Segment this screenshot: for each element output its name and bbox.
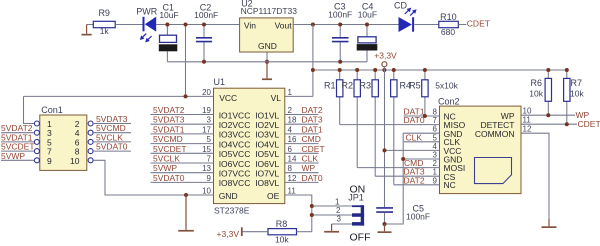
svg-text:10: 10: [523, 107, 532, 116]
terminal +3,3V bottom: [217, 227, 243, 239]
svg-text:IO4VL: IO4VL: [255, 139, 279, 149]
wire CD LED to R10: [414, 24, 438, 26]
wire U1 left stub pin17 5VDAT1: [151, 124, 214, 134]
resistor R1: [324, 70, 343, 125]
resistor R7: [564, 70, 585, 124]
svg-text:13: 13: [202, 164, 211, 173]
svg-text:3: 3: [337, 215, 342, 224]
resistor R10: [439, 21, 459, 27]
svg-text:R5: R5: [409, 81, 421, 91]
node: junction R3 rail: [373, 68, 377, 72]
wire U1 left stub pin3 5VDAT3: [151, 115, 214, 125]
wire U1 pin1 VL: [285, 95, 313, 97]
wire JP1 pin3: [332, 223, 352, 225]
wire Con1 pin7 5VCDET: [1, 142, 35, 152]
svg-text:18: 18: [288, 116, 297, 125]
wire Con1 pin1 riser: [24, 96, 35, 123]
Con1 pin circles right: [88, 121, 93, 163]
wire Con1 pin3 5VDAT2: [1, 123, 34, 133]
svg-text:8: 8: [288, 164, 293, 173]
svg-text:11: 11: [288, 187, 297, 196]
svg-text:CMD: CMD: [302, 134, 321, 144]
jumper JP1: [352, 205, 364, 225]
node: junction C1 on 5V line: [165, 23, 169, 27]
svg-text:19: 19: [202, 106, 211, 115]
resistor R3: [359, 70, 378, 176]
svg-text:9: 9: [207, 174, 212, 183]
svg-text:DAT0: DAT0: [302, 173, 323, 183]
svg-text:CDET: CDET: [578, 119, 600, 129]
svg-text:5VDAT2: 5VDAT2: [153, 105, 185, 115]
wire +3.3V riser from Vout line to U1 VL: [312, 25, 314, 97]
wire U1 right stub pin8 WP: [285, 163, 319, 173]
svg-text:Vin: Vin: [244, 20, 256, 30]
svg-text:4: 4: [288, 125, 293, 134]
svg-text:R8: R8: [276, 219, 288, 229]
node: junction R4 rail: [392, 68, 396, 72]
svg-text:IO5VL: IO5VL: [255, 149, 279, 159]
wire U1 left stub pin13 5VWP: [151, 163, 214, 173]
node: junction R7 on CDET: [565, 122, 569, 126]
wire gnd rail: [167, 61, 367, 63]
svg-text:DAT0: DAT0: [404, 115, 425, 125]
svg-text:5VWP: 5VWP: [153, 163, 177, 173]
svg-text:IO1VL: IO1VL: [255, 110, 279, 120]
svg-text:DAT2: DAT2: [404, 175, 425, 185]
IC U1 ST2378E: [214, 88, 285, 203]
svg-text:7: 7: [207, 155, 212, 164]
svg-text:CLK: CLK: [302, 154, 319, 164]
wire Con1 pin8 5VDAT0: [93, 142, 131, 152]
wire 5V line to U1 VCC pin20: [24, 95, 214, 97]
svg-text:5VCMD: 5VCMD: [153, 134, 183, 144]
node: junction JP1 pin1: [310, 204, 314, 208]
wire Con2 pin12 to ground: [521, 125, 549, 220]
wire R9 to LED PWR: [115, 24, 142, 26]
svg-text:10: 10: [70, 156, 80, 166]
ground symbol JP1: [324, 224, 339, 233]
resistor R4: [391, 70, 411, 185]
wire R10 to CDET label: [458, 24, 466, 26]
wire JP1 pin1: [312, 205, 352, 207]
svg-text:3: 3: [47, 128, 52, 138]
svg-text:R6: R6: [530, 78, 542, 88]
svg-text:5VWP: 5VWP: [1, 151, 25, 161]
svg-text:10k: 10k: [570, 89, 584, 99]
ground symbol U2: [262, 62, 272, 80]
node: junction R1 rail: [338, 68, 342, 72]
svg-text:11: 11: [523, 116, 532, 125]
node: junction R5 rail: [423, 68, 427, 72]
svg-text:16: 16: [288, 135, 297, 144]
svg-text:15: 15: [202, 145, 211, 154]
svg-text:IO7VL: IO7VL: [255, 169, 279, 179]
SD card icon inside Con2: [475, 158, 512, 184]
capacitor C3: [332, 25, 349, 62]
node: junction JP1 pin2: [310, 213, 314, 217]
wire JP1 pin2: [312, 214, 352, 216]
svg-text:R2: R2: [341, 81, 353, 91]
capacitor C2: [196, 25, 212, 62]
resistor R6: [529, 70, 551, 115]
node: junction C4 top: [365, 23, 369, 27]
svg-text:3: 3: [207, 116, 212, 125]
wire Con1 pin10 to U1 GND: [93, 160, 213, 195]
svg-text:IO3VL: IO3VL: [255, 130, 279, 140]
svg-text:1k: 1k: [100, 26, 110, 36]
svg-text:2: 2: [288, 106, 293, 115]
svg-text:5x10k: 5x10k: [435, 81, 458, 91]
wire Con2 pin6 GND: [403, 125, 439, 134]
node: junction 3.3V riser on Vout line: [311, 23, 315, 27]
svg-text:9: 9: [433, 176, 438, 185]
wire U1 pin11 OE: [285, 195, 312, 232]
svg-text:IO5VCC: IO5VCC: [219, 149, 251, 159]
wire Con2 pin3 GND: [403, 151, 439, 160]
svg-text:GND: GND: [219, 191, 238, 201]
ground symbol C5: [378, 224, 392, 233]
resistor R9: [93, 21, 115, 27]
svg-text:ST2378E: ST2378E: [214, 206, 250, 216]
LED PWR: [140, 17, 156, 43]
wire U1 left stub pin15 5VCDET: [151, 144, 214, 154]
node: junction R7 rail: [565, 68, 569, 72]
svg-text:10: 10: [202, 187, 211, 196]
svg-text:5VDAT0: 5VDAT0: [96, 142, 128, 152]
svg-text:DAT3: DAT3: [302, 115, 323, 125]
wire U1 left stub pin5 5VCMD: [151, 134, 214, 144]
node: junction R5 on DAT1: [423, 114, 427, 118]
node: junction C3 top: [338, 23, 342, 27]
svg-text:IO8VCC: IO8VCC: [219, 178, 251, 188]
node: junction +3,3V feed on rail: [382, 68, 386, 72]
svg-text:R3: R3: [359, 81, 371, 91]
wire U2 GND stem: [266, 52, 268, 62]
wire R8 right to OE vertical: [297, 231, 312, 233]
Con1 pin circles left: [34, 121, 39, 163]
svg-text:4: 4: [75, 128, 80, 138]
svg-text:CLK: CLK: [406, 132, 423, 142]
wire Con1 pin4 5VCMD: [93, 123, 131, 133]
wire R8 left to +3,3V terminal: [242, 231, 268, 233]
svg-text:DAT1: DAT1: [302, 124, 323, 134]
ground terminal left of R9: [82, 25, 92, 36]
svg-text:10uF: 10uF: [159, 10, 178, 20]
svg-text:Vout: Vout: [275, 20, 293, 30]
resistor R2: [341, 70, 360, 168]
svg-text:Con1: Con1: [41, 105, 63, 115]
svg-text:100nF: 100nF: [194, 10, 218, 20]
wire U1 right stub pin14 CLK: [285, 154, 319, 164]
svg-text:100nF: 100nF: [328, 10, 352, 20]
svg-text:COMMON: COMMON: [475, 129, 515, 139]
regulator U2: [240, 18, 294, 52]
node: junction GND vertical pin3: [401, 157, 405, 161]
svg-text:100nF: 100nF: [406, 212, 430, 222]
wire Con1 pin5 5VDAT1: [1, 132, 34, 142]
wire Con2 pin1 CS from R3: [375, 167, 439, 177]
capacitor C4: [357, 25, 378, 62]
svg-text:PWR: PWR: [136, 7, 157, 17]
wire Con2 pin8 DAT1: [404, 107, 440, 117]
ground symbol Con2 pin12: [542, 219, 557, 228]
svg-text:WP: WP: [302, 163, 316, 173]
svg-text:17: 17: [202, 125, 211, 134]
svg-text:12: 12: [288, 174, 297, 183]
svg-text:IO3VCC: IO3VCC: [219, 130, 251, 140]
svg-text:U1: U1: [214, 77, 226, 87]
node: junction rail left end: [311, 68, 315, 72]
svg-text:NCP1117DT33: NCP1117DT33: [241, 6, 298, 16]
node: junction riser on pin20 line: [184, 94, 188, 98]
wire U1 right stub pin2 DAT2: [285, 105, 323, 115]
resistor R8: [268, 219, 297, 245]
wire +3,3V feed down to VCC and C5: [383, 67, 385, 208]
wire Con2 pin7 DAT0 from R1: [340, 115, 440, 125]
wire Con1 pin6 5VCLK: [93, 132, 131, 142]
wire Con1 pin9 5VWP: [1, 151, 34, 161]
svg-text:IO8VL: IO8VL: [255, 178, 279, 188]
wire U1 left stub pin9 5VDAT0: [151, 173, 214, 183]
svg-text:Con2: Con2: [438, 97, 460, 107]
svg-text:14: 14: [288, 155, 297, 164]
svg-text:IO2VL: IO2VL: [255, 120, 279, 130]
svg-text:5VCLK: 5VCLK: [153, 154, 180, 164]
svg-text:IO4VCC: IO4VCC: [219, 139, 251, 149]
svg-text:R9: R9: [98, 8, 110, 18]
wire U1 right stub pin16 CMD: [285, 134, 321, 144]
svg-text:12: 12: [523, 125, 532, 134]
svg-text:ON: ON: [350, 183, 366, 195]
node: junction C2 on 5V line: [202, 23, 206, 27]
svg-text:IO6VCC: IO6VCC: [219, 159, 251, 169]
wire Con2 pin5 CLK: [404, 132, 440, 142]
svg-text:5VDAT0: 5VDAT0: [153, 173, 185, 183]
wire U1 right stub pin12 DAT0: [285, 173, 323, 183]
svg-text:IO6VL: IO6VL: [255, 159, 279, 169]
node: junction C2 bottom on gnd rail: [202, 60, 206, 64]
wire U1 right stub pin4 DAT1: [285, 124, 323, 134]
svg-text:VL: VL: [271, 93, 282, 103]
svg-text:R7: R7: [571, 78, 583, 88]
svg-text:680: 680: [441, 27, 455, 37]
node: junction C3 bottom: [338, 60, 342, 64]
LED CD: [399, 8, 417, 32]
capacitor C1: [159, 25, 178, 62]
ground symbol U1: [178, 195, 194, 232]
wire U1 right stub pin6 CDET: [285, 144, 325, 154]
svg-text:IO7VCC: IO7VCC: [219, 169, 251, 179]
wire U1 left stub pin7 5VCLK: [151, 154, 214, 164]
capacitor C5: [376, 204, 430, 225]
wire Con2 pin11 CDET: [521, 116, 600, 129]
svg-text:IO1VCC: IO1VCC: [219, 110, 251, 120]
node: junction riser on 5V line: [184, 23, 188, 27]
svg-text:10uF: 10uF: [358, 10, 377, 20]
wire U1 left stub pin19 5VDAT2: [151, 105, 214, 115]
svg-text:5: 5: [207, 135, 212, 144]
connector Con1: [40, 115, 87, 170]
wire Con2 pin10 WP: [521, 107, 590, 120]
wire Con2 pin2 MOSI from R2: [357, 158, 439, 168]
svg-text:GND: GND: [258, 41, 277, 51]
wire Con1 pin2 5VDAT3: [93, 114, 131, 124]
node: junction R6 rail: [546, 68, 550, 72]
wire U1 right stub pin18 DAT3: [285, 115, 323, 125]
svg-text:5VDAT1: 5VDAT1: [153, 124, 185, 134]
svg-text:+3,3V: +3,3V: [217, 229, 240, 239]
svg-text:CDET: CDET: [467, 19, 490, 29]
svg-text:10k: 10k: [529, 89, 543, 99]
supply symbol +3,3V: [374, 51, 397, 67]
svg-text:VCC: VCC: [219, 93, 237, 103]
svg-text:20: 20: [202, 88, 211, 97]
svg-text:+3,3V: +3,3V: [374, 51, 397, 61]
wire Con2 pin9 NC from R4: [394, 175, 440, 185]
wire 5V main line from ground terminal to R9: [87, 24, 94, 26]
wire +3.3V rail: [313, 69, 567, 71]
wire 5V riser down to U1 VCC line: [185, 25, 187, 97]
node: junction C5 bottom: [383, 222, 387, 226]
wire GND from Con2 pins 6,3 down: [385, 133, 404, 224]
svg-text:CD: CD: [394, 0, 407, 10]
svg-text:CDET: CDET: [302, 144, 325, 154]
svg-text:5VDAT3: 5VDAT3: [153, 115, 185, 125]
svg-text:6: 6: [288, 145, 293, 154]
node: junction R2 rail: [355, 68, 359, 72]
node: junction VCC pin4 feed: [383, 148, 387, 152]
svg-text:DAT2: DAT2: [302, 105, 323, 115]
wire U2 Vout to CD LED: [293, 24, 398, 26]
svg-text:OFF: OFF: [350, 231, 371, 243]
svg-text:OE: OE: [267, 191, 280, 201]
node: junction R6 on WP: [546, 113, 550, 117]
svg-text:5VCDET: 5VCDET: [153, 144, 187, 154]
svg-text:10k: 10k: [275, 235, 289, 245]
wire Con2 pin4 VCC: [385, 142, 440, 151]
wire LED to U2 Vin through C1/C2 taps: [156, 24, 239, 26]
svg-text:R10: R10: [440, 12, 457, 22]
svg-text:IO2VCC: IO2VCC: [219, 120, 251, 130]
svg-text:NC: NC: [444, 180, 456, 190]
resistor R5: [409, 70, 428, 116]
svg-text:1: 1: [288, 88, 293, 97]
connector Con2: [440, 106, 522, 194]
svg-text:R1: R1: [324, 81, 336, 91]
node: junction U2 gnd on gnd rail: [265, 60, 269, 64]
node: junction U1 gnd: [184, 193, 188, 197]
svg-text:9: 9: [47, 156, 52, 166]
